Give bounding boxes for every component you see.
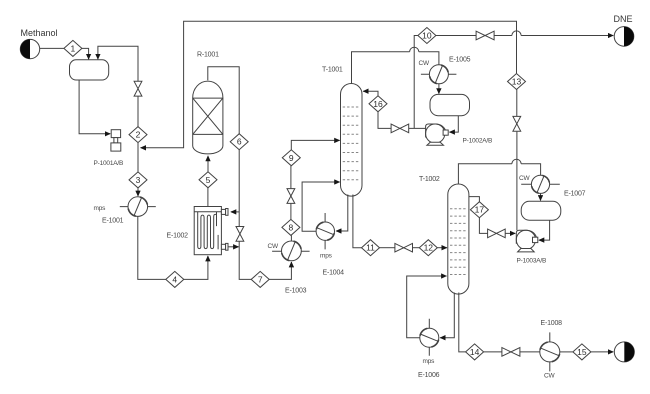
reactor R-1001 bbox=[193, 81, 223, 154]
wire T-1002 top to stream 17 bbox=[469, 197, 480, 202]
node stream 9 bbox=[282, 150, 300, 166]
node stream 1 bbox=[64, 40, 82, 56]
node stream 3 bbox=[129, 172, 147, 188]
wire stream 12 to column T-1002 bbox=[437, 247, 447, 249]
wire discharge junction riser to stream 10 bbox=[414, 36, 418, 129]
wire E-1008 to stream 15 bbox=[560, 351, 573, 353]
node stream 13 bbox=[508, 74, 526, 90]
svg-text:14: 14 bbox=[470, 347, 480, 357]
svg-text:10: 10 bbox=[422, 31, 432, 41]
svg-text:E-1001: E-1001 bbox=[102, 218, 124, 225]
wire stream 7 to cooler E-1003 bbox=[269, 262, 291, 279]
wire methanol recycle riser from pump P-1003 bbox=[516, 90, 518, 231]
wire stream 10 to product valve bbox=[436, 35, 476, 37]
svg-text:4: 4 bbox=[172, 274, 177, 284]
valve on recycle line above stream 2 bbox=[134, 81, 142, 96]
svg-text:13: 13 bbox=[512, 77, 522, 87]
wire stream 11 to valve bbox=[380, 247, 395, 249]
svg-text:2: 2 bbox=[136, 130, 141, 140]
svg-text:Methanol: Methanol bbox=[21, 28, 58, 38]
cooler E-1008 bbox=[540, 332, 560, 371]
wire E-1002 hot outlet nozzle to line bbox=[228, 246, 239, 248]
wire valve to DNE sink with hop bbox=[494, 35, 613, 37]
svg-text:E-1002: E-1002 bbox=[167, 233, 189, 240]
node stream 14 bbox=[466, 344, 484, 360]
pump P-1001A/B bbox=[111, 130, 121, 151]
svg-text:P-1001A/B: P-1001A/B bbox=[94, 160, 124, 167]
svg-text:CW: CW bbox=[268, 243, 279, 250]
heater E-1001 bbox=[120, 197, 156, 217]
wire E-1006 return to column bbox=[407, 276, 447, 338]
wire recycle return into feed line bbox=[141, 21, 517, 148]
cooler E-1003 bbox=[272, 241, 310, 261]
wire valve to stream 12 bbox=[413, 247, 420, 249]
pump P-1003A/B bbox=[516, 230, 538, 252]
svg-text:T-1001: T-1001 bbox=[322, 67, 343, 74]
svg-text:mps: mps bbox=[423, 358, 436, 365]
valve on stream 17 line bbox=[488, 229, 506, 238]
drum feed vessel bbox=[70, 60, 109, 80]
wire T-1001 bottoms to stream 11 bbox=[353, 195, 362, 248]
svg-text:8: 8 bbox=[289, 222, 294, 232]
wire stream 5 to reactor R-1001 bbox=[207, 156, 209, 172]
svg-text:CW: CW bbox=[544, 373, 555, 380]
wire P-1002 discharge to junction and reflux valve bbox=[378, 112, 425, 129]
E-1002 bottom nozzle bbox=[221, 243, 228, 250]
wire stream 17 to valve and pump bbox=[479, 218, 515, 234]
svg-text:E-1006: E-1006 bbox=[418, 372, 440, 379]
wire stream 14 to valve bbox=[484, 351, 502, 353]
condenser E-1007 bbox=[521, 175, 560, 193]
node stream 12 bbox=[419, 240, 437, 256]
valve between stream 8 and 9 bbox=[287, 189, 295, 204]
wire source to stream 1 bbox=[40, 47, 64, 49]
heat exchanger E-1002 bbox=[194, 207, 221, 255]
svg-text:P-1003A/B: P-1003A/B bbox=[517, 258, 547, 265]
node stream 7 bbox=[251, 271, 269, 287]
node stream 6 bbox=[230, 134, 248, 150]
wire R-1001 overhead to stream 6 bbox=[208, 67, 239, 134]
wire branch to E-1002 hot inlet nozzle bbox=[231, 211, 239, 213]
reboiler E-1004 bbox=[316, 213, 334, 249]
wire valve to stream 2 bbox=[137, 96, 139, 126]
svg-text:E-1008: E-1008 bbox=[541, 320, 563, 327]
wire stream 16 reflux into column top bbox=[363, 91, 378, 96]
bypass valve beside E-1002 bbox=[236, 227, 244, 242]
wire drum to pump P-1003 suction bbox=[539, 220, 550, 240]
pump P-1002A/B bbox=[426, 124, 449, 145]
hop over recycle riser bbox=[512, 31, 521, 36]
node stream 16 bbox=[369, 96, 387, 112]
node stream 5 bbox=[199, 172, 217, 188]
wire T-1002 overhead to condenser E-1007 with hop bbox=[458, 164, 540, 184]
svg-text:P-1002A/B: P-1002A/B bbox=[463, 138, 493, 145]
wire T-1001 bottoms to reboiler E-1004 bbox=[336, 195, 348, 232]
node DNE product sink bbox=[614, 27, 634, 47]
node methanol feed source bbox=[20, 39, 39, 58]
wire stream 15 to bottoms sink bbox=[591, 351, 613, 353]
wire T-1002 bottoms to stream 14 bbox=[459, 293, 466, 352]
wire valve to cooler E-1008 bbox=[520, 351, 540, 353]
svg-text:DNE: DNE bbox=[614, 14, 633, 24]
wire valve to stream 9 bbox=[290, 166, 292, 189]
wire T-1002 bottoms to reboiler E-1006 bbox=[440, 293, 454, 338]
wire drum outlet to pump P-1001 bbox=[79, 80, 110, 134]
node stream 4 bbox=[166, 271, 184, 287]
wire E-1002 top to stream 5 bbox=[207, 188, 209, 207]
svg-text:17: 17 bbox=[475, 205, 485, 215]
node stream 10 bbox=[418, 28, 436, 44]
svg-text:12: 12 bbox=[424, 243, 434, 253]
column T-1001 bbox=[341, 83, 363, 196]
node stream 2 bbox=[129, 127, 147, 143]
recycle valve below stream 13 bbox=[513, 116, 521, 131]
node stream 15 bbox=[573, 344, 591, 360]
wire stream 1 to drum V inlet bbox=[82, 48, 89, 59]
wire E-1005 to reflux drum bbox=[438, 84, 440, 94]
svg-text:E-1004: E-1004 bbox=[323, 270, 345, 277]
svg-text:CW: CW bbox=[519, 175, 530, 182]
column T-1002 bbox=[448, 184, 469, 294]
wire stream 4 to E-1002 cold inlet bbox=[184, 256, 208, 279]
wire T-1001 overhead to condenser E-1005 bbox=[352, 52, 439, 84]
wire recycle to drum inlet bbox=[98, 46, 138, 81]
reflux drum for T-1002 bbox=[521, 201, 561, 220]
DNE product valve bbox=[476, 31, 494, 40]
wire stream 6 down hot side with bypass bbox=[239, 150, 251, 280]
reflux valve bbox=[391, 124, 409, 133]
svg-text:15: 15 bbox=[577, 347, 587, 357]
node stream 8 bbox=[282, 219, 300, 235]
svg-text:T-1002: T-1002 bbox=[419, 176, 440, 183]
valve between stream 11 and 12 bbox=[395, 243, 413, 252]
wire stream 8 to valve bbox=[290, 204, 292, 220]
node bottoms product sink bbox=[614, 342, 634, 362]
node stream 11 bbox=[362, 240, 380, 256]
condenser E-1005 bbox=[421, 65, 457, 84]
valve between stream 14 and E-1008 bbox=[502, 348, 520, 357]
wire E-1001 to stream 4 bbox=[138, 216, 166, 279]
E-1002 top nozzle bbox=[221, 209, 228, 216]
svg-text:5: 5 bbox=[206, 175, 211, 185]
wire drum to pump P-1002 suction bbox=[450, 116, 459, 132]
svg-text:CW: CW bbox=[419, 60, 430, 67]
wire E-1004 return to column bbox=[302, 182, 340, 231]
svg-text:mps: mps bbox=[320, 253, 333, 260]
hop over recycle riser at overhead line bbox=[512, 159, 521, 164]
svg-text:6: 6 bbox=[237, 137, 242, 147]
wire stream 9 to column T-1001 feed bbox=[291, 140, 339, 149]
wire E-1007 to reflux drum bbox=[540, 193, 542, 200]
node stream 17 bbox=[470, 202, 488, 218]
svg-text:E-1003: E-1003 bbox=[285, 288, 307, 295]
svg-text:11: 11 bbox=[366, 243, 375, 253]
svg-text:3: 3 bbox=[136, 175, 141, 185]
svg-text:E-1007: E-1007 bbox=[564, 191, 586, 198]
reflux drum for T-1001 bbox=[430, 94, 470, 115]
line hop over product riser bbox=[410, 47, 419, 52]
svg-text:E-1005: E-1005 bbox=[449, 57, 471, 64]
svg-text:mps: mps bbox=[94, 205, 107, 212]
svg-text:9: 9 bbox=[289, 153, 294, 163]
svg-text:16: 16 bbox=[373, 99, 383, 109]
reboiler E-1006 bbox=[420, 319, 439, 356]
svg-text:7: 7 bbox=[258, 274, 263, 284]
wire stream 2 to stream 3 with recycle junction bbox=[137, 143, 139, 172]
svg-text:1: 1 bbox=[71, 43, 76, 53]
svg-text:R-1001: R-1001 bbox=[197, 52, 219, 59]
wire E-1003 to stream 8 bbox=[290, 235, 292, 241]
wire stream 3 to heater E-1001 bbox=[137, 188, 139, 196]
